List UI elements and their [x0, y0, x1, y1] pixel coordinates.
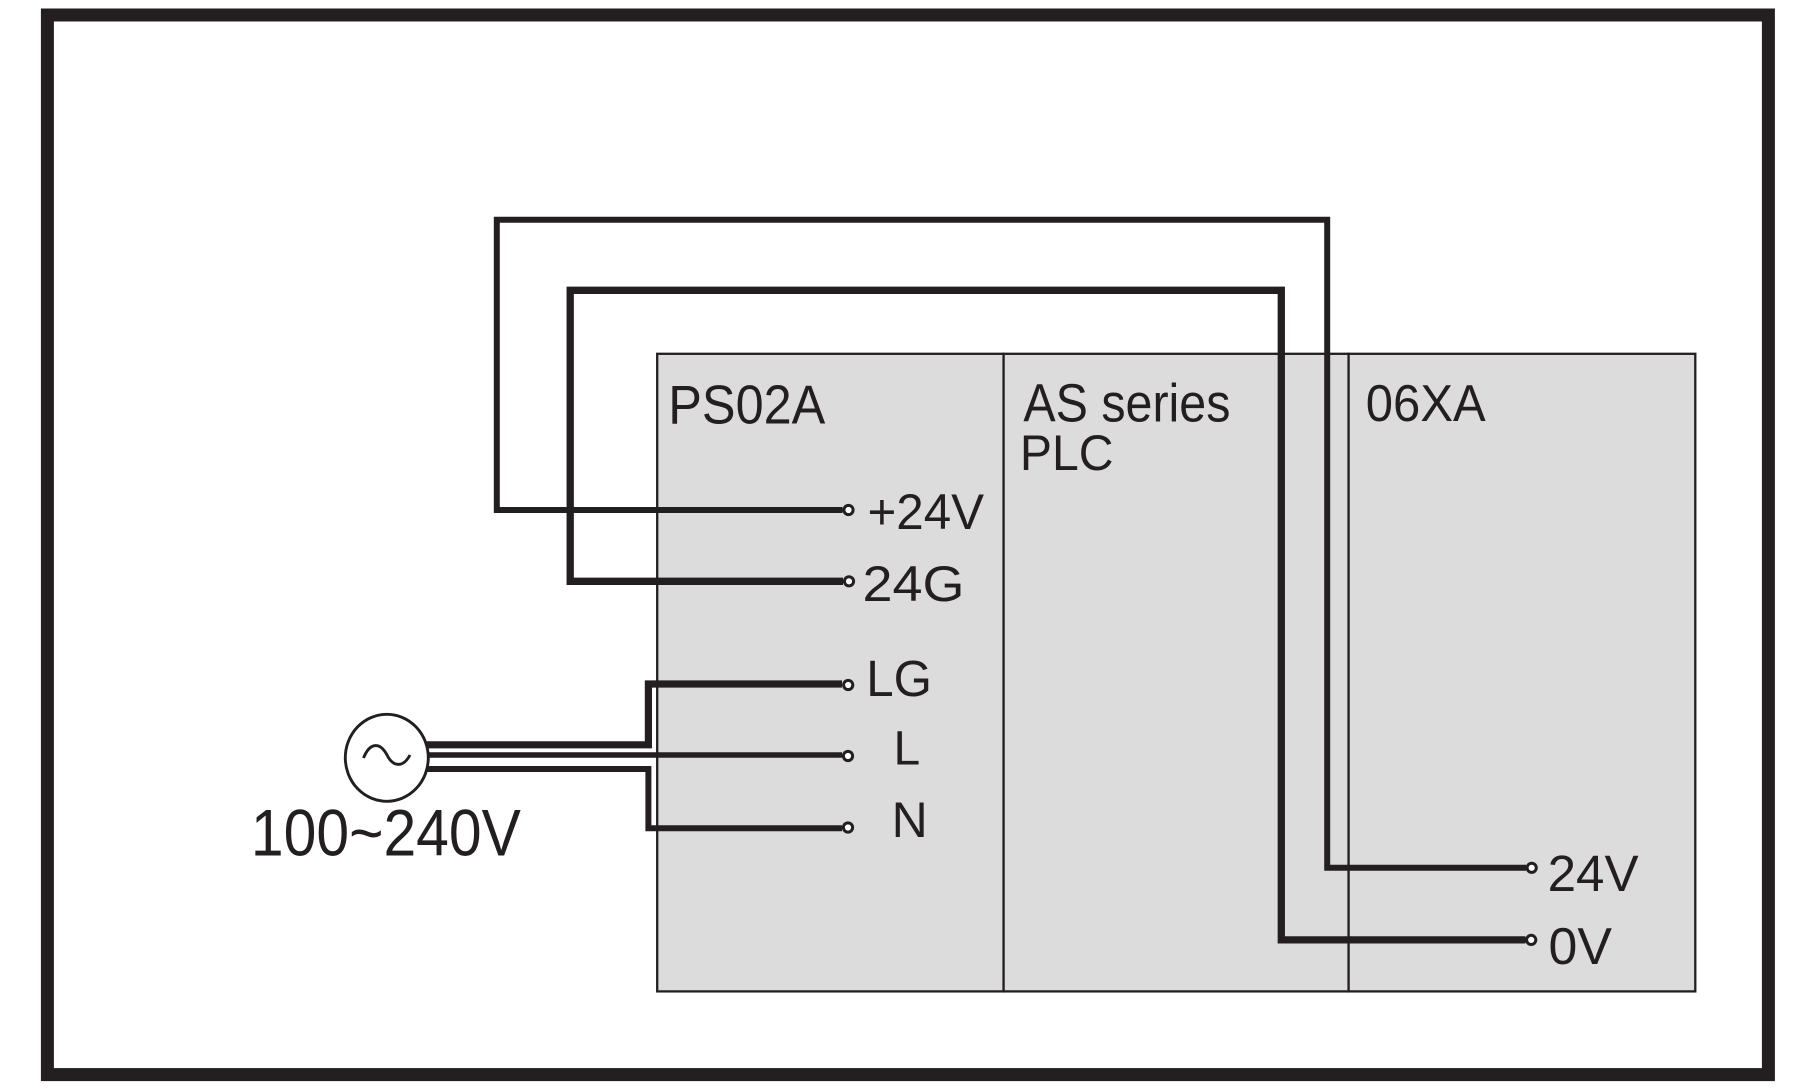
module box PS02A — [657, 354, 1003, 992]
svg-text:0V: 0V — [1549, 917, 1613, 975]
module box 06XA — [1349, 354, 1696, 992]
terminal +24V — [844, 505, 853, 514]
terminal LG — [844, 680, 853, 689]
AC source circle — [345, 714, 428, 801]
terminal 24G — [844, 577, 853, 586]
module box AS series PLC — [1004, 354, 1349, 992]
svg-text:24V: 24V — [1548, 845, 1639, 902]
svg-text:L: L — [894, 722, 921, 775]
svg-text:100~240V: 100~240V — [251, 795, 521, 869]
svg-text:+24V: +24V — [868, 484, 985, 540]
terminal 24V — [1527, 863, 1536, 872]
terminal 0V — [1527, 935, 1536, 944]
wire 24G to 0V loop — [570, 290, 1525, 940]
wire LG from AC source — [426, 684, 842, 745]
wire L from AC source — [428, 752, 842, 758]
svg-text:06XA: 06XA — [1366, 375, 1486, 433]
wire +24V to 24V loop — [497, 220, 1526, 868]
terminal L — [843, 751, 852, 760]
svg-text:LG: LG — [866, 650, 932, 707]
wire N from AC source — [427, 769, 842, 828]
svg-text:PLC: PLC — [1020, 425, 1114, 481]
svg-text:PS02A: PS02A — [668, 374, 825, 436]
terminal N — [843, 823, 852, 832]
svg-text:24G: 24G — [863, 555, 965, 612]
AC sine symbol — [364, 746, 411, 765]
svg-text:N: N — [892, 792, 928, 848]
